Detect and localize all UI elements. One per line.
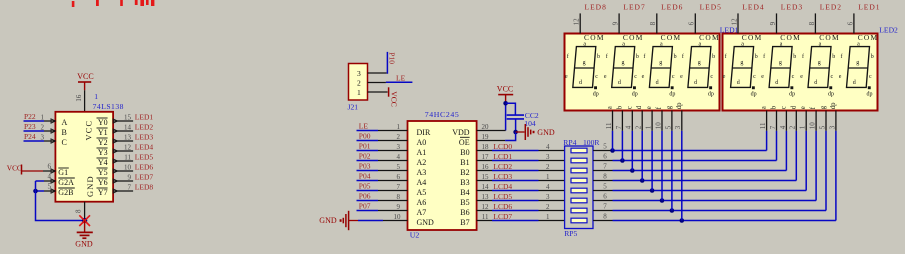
svg-text:Y6: Y6 [98,178,108,187]
svg-text:G1: G1 [58,168,68,177]
svg-text:6: 6 [603,153,607,161]
LED2 segment pin 1 wire [805,111,807,131]
pin 2 number [397,133,401,141]
RP pin 6 number [603,153,607,161]
net label P24 [24,132,36,141]
net label LCD7 [493,212,512,221]
U1 part number 74LS138 [93,92,124,111]
svg-text:2: 2 [635,125,643,129]
svg-text:100R: 100R [583,138,600,147]
wire enable pins down to GND junction [36,181,85,221]
svg-text:LED6: LED6 [661,3,683,12]
svg-text:2: 2 [397,133,401,141]
pin 9 number [397,203,401,211]
svg-text:d: d [853,80,856,86]
pin 7 number [615,125,623,129]
RP right pin 6 stub [593,160,613,162]
capacitor C2 (CC2 104) [507,111,539,128]
svg-text:2: 2 [789,125,797,129]
wire U2 pin 13 net LCD5 to RP pin 3 [477,200,565,202]
wire LED1 segment b down to bus [621,131,623,161]
svg-text:13: 13 [124,134,132,142]
svg-text:GND: GND [537,128,555,137]
LED2 segment pin c label (rotated) [780,106,787,109]
pin 12 number [730,18,738,26]
wire J21 pin 1 to VCC [368,91,388,93]
svg-text:e: e [680,74,683,80]
buffer U2 74HC245 part number [425,110,460,119]
svg-text:14: 14 [482,183,490,191]
LED2 segment pin 4 wire [785,111,787,131]
svg-text:11: 11 [124,154,131,162]
RP pin 7 number [603,163,607,171]
LED2 digit 2 COM label [780,33,801,42]
pin 12 number [482,203,490,211]
svg-text:11: 11 [605,122,613,129]
wire segment net c row [613,170,787,172]
svg-text:c: c [634,74,637,80]
svg-text:7: 7 [397,183,401,191]
RP right pin 5 stub [593,150,613,152]
svg-text:3: 3 [41,134,45,142]
svg-text:LED2: LED2 [135,123,154,132]
svg-text:b: b [636,54,639,60]
svg-text:LED4: LED4 [742,3,764,12]
svg-text:6: 6 [397,173,401,181]
svg-text:5: 5 [603,183,607,191]
wire segment net d row [613,180,797,182]
LED1 segment pin dp label (rotated) [676,102,683,109]
U2 right labels VDD OE B0-B7 [452,128,470,227]
svg-text:P01: P01 [359,142,371,151]
LED2 digit 3 COM label [819,33,840,42]
svg-text:f: f [606,53,608,60]
svg-text:Y0: Y0 [98,118,108,127]
resistor element 7 of RP5 [571,208,587,213]
svg-text:e: e [723,74,726,80]
junction segment dp left display [680,218,685,223]
LED2 segment pin e label (rotated) [800,106,807,109]
svg-text:5: 5 [603,143,607,151]
wire G2B pin 5 to ground net [36,189,56,193]
RP right pin 5 stub [593,190,613,192]
LED2 digit 2 COM pin 9 wire to net LED3 [776,13,778,33]
svg-text:B5: B5 [460,198,469,207]
wire VCC to U1 pin 16 [84,90,86,112]
svg-text:LE: LE [396,74,406,83]
pin 9 number [128,174,132,182]
decoder U1 74LS138 body [55,112,113,202]
svg-text:c: c [595,74,598,80]
net label P07 [359,202,371,211]
LED1 segment pin 4 wire [631,111,633,131]
svg-text:4: 4 [48,173,52,181]
svg-text:f: f [841,53,843,60]
pin 10 number [654,122,662,130]
RP right pin 6 stub [593,200,613,202]
svg-text:1: 1 [41,114,45,122]
svg-text:J21: J21 [348,102,359,111]
RP pin 1 number [546,213,550,221]
net label LED3 [781,3,803,12]
svg-text:8: 8 [808,21,816,25]
svg-text:LCD6: LCD6 [493,202,512,211]
RP right pin 7 stub [593,210,613,212]
net label LED2 [820,3,842,12]
net label P00 [359,132,371,141]
svg-text:g: g [820,105,827,109]
net label P06 [359,192,371,201]
LED1 segment pin g label (rotated) [666,105,673,109]
junction segment g left display [670,208,675,213]
svg-text:LED3: LED3 [135,133,154,142]
svg-text:3: 3 [397,143,401,151]
RP right pin 7 stub [593,170,613,172]
U2 left labels DIR A0-A7 GND [417,128,435,227]
LED1 digit 3 seven-segment glyph [642,41,677,97]
wire U2 pin 16 net LCD2 to RP pin 2 [477,170,565,172]
wire U1 Y6 pin 9 to net LED7 [113,179,133,183]
LED2 segment pin 11 wire [766,111,768,131]
junction at U1 ground node [82,218,87,223]
wire net P23 to U1 pin 2 [24,129,56,133]
svg-text:3: 3 [357,69,361,78]
pin 9 number [769,21,777,25]
svg-text:dp: dp [632,91,638,97]
svg-text:d: d [814,80,817,86]
net label LE [396,74,406,83]
pin 1 number [799,125,807,129]
svg-text:g: g [740,60,743,66]
pin 3 number [397,143,401,151]
svg-text:7: 7 [603,203,607,211]
wire net P22 to U1 pin 1 [24,119,56,123]
svg-text:COM: COM [858,33,879,42]
svg-text:9: 9 [397,203,401,211]
svg-text:g: g [818,60,821,66]
LED1 segment pin 10 wire [661,111,663,131]
pin 11 number [482,213,489,221]
resistor element 2 of RP4 [571,158,587,163]
pin 4 number [48,173,52,181]
svg-text:A7: A7 [417,208,427,217]
net label LED2 [135,123,154,132]
U1 input labels A B C [62,118,68,147]
wire LED2 segment c down to bus [785,131,787,171]
svg-text:A1: A1 [417,148,427,157]
svg-text:P05: P05 [359,182,371,191]
LED2 digit 1 seven-segment glyph [723,41,758,97]
svg-text:dp: dp [828,91,834,97]
pin 11 number [605,122,613,129]
wire LED2 segment b down to bus [776,131,778,161]
svg-text:10: 10 [654,122,662,130]
svg-text:dp: dp [676,102,683,109]
net label LED6 [135,163,154,172]
svg-text:P02: P02 [359,152,371,161]
junction segment c left display [630,168,635,173]
svg-text:COM: COM [584,33,605,42]
RP pin 3 number [546,153,550,161]
net label LED1 [858,3,880,12]
LED1 digit 1 COM pin 12 wire to net LED8 [579,13,581,33]
wire net P00 to U2 pin 2 [357,140,408,142]
resistor element 1 of RP4 [571,148,587,153]
svg-text:10: 10 [124,164,132,172]
wire LED2 segment g down to bus [825,131,827,211]
LED2 segment pin d label (rotated) [790,105,797,109]
svg-text:c: c [626,106,633,109]
svg-text:c: c [753,74,756,80]
svg-text:12: 12 [124,144,132,152]
power VCC (above U2 pin 20) [497,85,513,103]
LED1 segment pin 2 wire [641,111,643,131]
pin 13 number [482,193,490,201]
svg-text:1: 1 [546,213,550,221]
svg-text:e: e [761,74,764,80]
svg-text:c: c [792,74,795,80]
wire VCC down to U2 pin 20 [477,102,506,130]
LED1 segment pin 11 wire [612,111,614,131]
svg-text:e: e [800,106,807,109]
svg-text:VCC: VCC [85,120,94,141]
LED1 segment pin 5 wire [671,111,673,131]
wire LED2 segment d down to bus [795,131,797,181]
LED1 digit 2 COM pin 9 wire to net LED7 [618,13,620,33]
net label P03 [359,162,371,171]
LED2 segment pin 2 wire [795,111,797,131]
svg-text:9: 9 [128,174,132,182]
wire U1 Y5 pin 10 to net LED6 [113,169,133,173]
LED2 digit 1 COM pin 12 wire to net LED4 [737,13,739,33]
svg-text:LED2: LED2 [879,26,898,35]
svg-text:74HC245: 74HC245 [425,110,460,119]
LED1 digit 1 COM label [584,33,605,42]
svg-text:d: d [656,80,659,86]
svg-text:3: 3 [828,125,836,129]
pin 2 number [789,125,797,129]
svg-text:a: a [607,106,614,109]
svg-text:16: 16 [75,94,83,102]
svg-text:6: 6 [603,193,607,201]
pin 7 number [769,125,777,129]
svg-text:12: 12 [573,18,581,26]
resistor element 4 of RP4 [571,178,587,183]
svg-text:g: g [856,60,859,66]
wire segment net a row [613,150,767,152]
LED1 segment pin c label (rotated) [626,106,633,109]
svg-text:f: f [643,53,645,60]
svg-text:GND: GND [319,216,337,225]
svg-text:dp: dp [830,102,837,109]
svg-text:8: 8 [75,209,83,213]
wire net P05 to U2 pin 7 [357,190,408,192]
junction segment d left display [640,178,645,183]
svg-text:b: b [755,54,758,60]
pin 8 number [808,21,816,25]
svg-text:2: 2 [357,79,361,88]
svg-text:VDD: VDD [452,128,470,137]
no-ERC marker cross [79,215,90,226]
wire VCC to pin 6 [43,169,55,173]
svg-text:dp: dp [751,91,757,97]
pin 7 number [128,184,132,192]
LED2 segment pin dp label (rotated) [830,102,837,109]
svg-text:Y5: Y5 [98,168,108,177]
svg-text:LED8: LED8 [585,3,607,12]
RP pin 5 number [603,183,607,191]
pin 12 number [573,18,581,26]
svg-text:g: g [583,60,586,66]
pin 3 number [674,125,682,129]
svg-text:c: c [869,74,872,80]
net label P22 [24,112,36,121]
pin 8 number [649,21,657,25]
svg-text:LED7: LED7 [623,3,645,12]
svg-text:A4: A4 [417,178,427,187]
svg-text:A0: A0 [417,138,427,147]
net label LED7 [623,3,645,12]
net label LED6 [661,3,683,12]
wire GND to U2 pin 10 [358,220,408,222]
U1 enable labels G1 G2A G2B [58,168,75,197]
pin 4 number [779,125,787,129]
junction segment f left display [660,198,665,203]
svg-text:Y1: Y1 [98,128,108,137]
pin 5 number [48,183,52,191]
pin 6 number [846,21,854,25]
svg-text:e: e [839,74,842,80]
LED1 segment pin a label (rotated) [607,106,614,109]
svg-text:2: 2 [41,124,45,132]
pin 11 number [759,122,767,129]
net label LED5 [135,153,154,162]
RP right pin 8 stub [593,220,613,222]
LED2 segment pin f label (rotated) [810,106,817,109]
pin 16 number [482,163,490,171]
net label LED8 [135,183,154,192]
pin 4 number [397,153,401,161]
pin 19 number [482,133,490,141]
svg-text:dp: dp [789,91,795,97]
svg-text:5: 5 [664,125,672,129]
svg-text:LED6: LED6 [135,163,154,172]
svg-text:B: B [62,128,67,137]
svg-text:P10: P10 [388,52,397,64]
RP pin 1 number [546,173,550,181]
pin 10 number [809,122,817,130]
LED1 digit 3 COM pin 8 wire to net LED6 [656,13,658,33]
LED2 digit 3 seven-segment glyph [800,41,835,97]
wire net P07 to U2 pin 9 [357,210,408,212]
svg-text:e: e [604,74,607,80]
net label P01 [359,142,371,151]
svg-text:d: d [618,80,621,86]
svg-text:Y3: Y3 [98,148,108,157]
svg-text:dp: dp [593,91,599,97]
net label LCD6 [493,202,512,211]
wire J21 pin 2 to net LE [368,81,413,83]
wire net P06 to U2 pin 8 [357,200,408,202]
svg-text:B6: B6 [460,208,469,217]
svg-text:8: 8 [603,213,607,221]
RP pin 2 number [546,163,550,171]
svg-text:1: 1 [357,88,361,97]
svg-text:P06: P06 [359,192,371,201]
svg-text:6: 6 [48,163,52,171]
svg-text:dp: dp [867,91,873,97]
wire LED1 segment c down to bus [631,131,633,171]
svg-text:16: 16 [482,163,490,171]
svg-text:LED1: LED1 [858,3,880,12]
wire LED2 segment a down to bus [766,131,768,151]
wire C2 to ground node [515,119,517,132]
svg-text:COM: COM [819,33,840,42]
J21 pin numbers 3 2 1 [357,69,361,97]
wire LED1 segment e down to bus [651,131,653,191]
net label LCD1 [493,152,512,161]
wire U1 Y3 pin 12 to net LED4 [113,149,133,153]
wire U2 pin 11 net LCD7 to RP pin 1 [477,220,565,222]
svg-text:A6: A6 [417,198,427,207]
svg-text:VCC: VCC [389,91,398,106]
svg-text:P24: P24 [24,132,36,141]
svg-text:4: 4 [546,183,550,191]
pin 5 number [397,163,401,171]
net label LCD5 [493,192,512,201]
svg-text:10: 10 [809,122,817,130]
svg-text:LCD4: LCD4 [493,182,512,191]
svg-text:f: f [802,53,804,60]
pin 14 number [482,183,490,191]
LED1 digit 1 seven-segment glyph [565,41,600,97]
svg-text:7: 7 [769,125,777,129]
svg-text:COM: COM [780,33,801,42]
svg-text:B1: B1 [460,158,469,167]
svg-text:G2A: G2A [58,178,74,187]
svg-text:DIR: DIR [417,128,431,137]
svg-text:3: 3 [546,193,550,201]
ground GND (left of U2 pin 10, rotated) [319,211,358,230]
svg-text:Y2: Y2 [98,138,108,147]
resistor element 3 of RP4 [571,168,587,173]
svg-text:f: f [725,53,727,60]
svg-text:74LS138: 74LS138 [93,102,124,111]
wire U2 pin 14 net LCD4 to RP pin 4 [477,190,565,192]
svg-text:COM: COM [623,33,644,42]
svg-text:e: e [565,74,568,80]
pin 6 number [397,173,401,181]
wire segment net b row [613,160,777,162]
LED1 digit 4 seven-segment glyph [680,41,715,97]
svg-text:LCD3: LCD3 [493,172,512,181]
pin 11 number [124,154,131,162]
svg-text:LED4: LED4 [135,143,154,152]
wire net P02 to U2 pin 4 [357,160,408,162]
svg-text:d: d [737,80,740,86]
svg-text:4: 4 [397,153,401,161]
LED1 segment pin f label (rotated) [656,106,663,109]
wire U1 Y4 pin 11 to net LED5 [113,159,133,163]
display module LED1 body [565,34,720,111]
wire U2 pin 19 OE to ground node [477,132,516,141]
net label LED8 [585,3,607,12]
power VCC (left, to U1 G1 pin 6) [7,164,43,175]
wire net P03 to U2 pin 5 [357,170,408,172]
svg-text:LED7: LED7 [135,173,154,182]
designator LED1 [720,26,739,35]
wire U1 Y0 pin 15 to net LED1 [113,119,133,123]
